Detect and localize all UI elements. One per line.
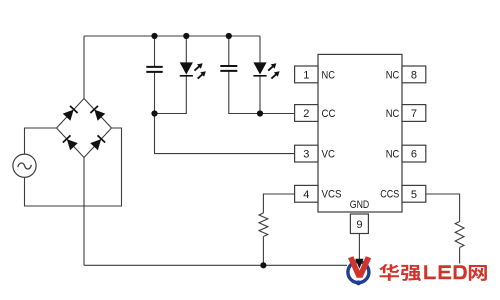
junction: branch2 bottom: [257, 110, 263, 116]
wire: bridge bottom vertex down: [83, 158, 85, 266]
wire: top rail: [84, 35, 260, 37]
svg-text:5: 5: [411, 189, 417, 201]
AC source V1: [13, 154, 36, 177]
logo text: 强: [401, 265, 421, 281]
wire: pin 4 (VCS) to R1: [263, 194, 294, 213]
wire: bridge top vertex up to top rail: [83, 36, 85, 99]
capacitor C2: [220, 66, 237, 71]
svg-text:VC: VC: [322, 149, 336, 161]
logo text: 华: [379, 264, 399, 281]
pin 1 box: [295, 66, 318, 83]
svg-text:NC: NC: [386, 108, 400, 120]
pin 6 box: [402, 145, 426, 162]
svg-text:9: 9: [356, 219, 362, 231]
diode D3 (bridge bottom-left): [63, 135, 78, 150]
svg-text:NC: NC: [322, 69, 336, 81]
wire: LED1 column: [185, 36, 187, 62]
wire: C2 column: [228, 36, 230, 65]
wire: R2 down lead: [459, 248, 461, 264]
svg-text:4: 4: [303, 189, 309, 201]
resistor R2: [455, 222, 464, 248]
svg-text:6: 6: [411, 149, 417, 161]
diode D1 (bridge top-left): [63, 106, 78, 121]
wire: branch2 junction to pin 2 (CC): [260, 113, 295, 115]
wire: pin 9 (GND) down with arrowhead: [355, 234, 363, 269]
wire: bottom ground rail: [84, 264, 347, 266]
wire: LED2 column: [259, 36, 261, 62]
wire: AC bottom to bridge right vertex: [25, 128, 122, 206]
LED1: [180, 61, 208, 81]
svg-text:NC: NC: [386, 149, 400, 161]
wire: pin 5 (CCS) to R2: [426, 194, 460, 222]
wire: R1 to ground rail: [262, 237, 264, 266]
svg-text:CC: CC: [322, 108, 336, 120]
svg-text:VCS: VCS: [322, 189, 342, 201]
svg-text:2: 2: [303, 108, 309, 120]
junction: branch1 bottom: [151, 110, 157, 116]
pin 5 box: [402, 185, 426, 202]
wire: branch1 junction to pin 3 (VC): [155, 114, 295, 154]
pin 3 box: [295, 145, 318, 162]
svg-text:NC: NC: [386, 69, 400, 81]
pin 8 box: [402, 66, 426, 83]
svg-text:3: 3: [303, 149, 309, 161]
logo text: D: [454, 265, 467, 279]
pin 9 box: [350, 214, 368, 234]
logo mark: red V: [348, 256, 371, 277]
svg-text:8: 8: [411, 69, 417, 81]
junction: R1 at ground rail: [260, 262, 266, 268]
bridge rectifier diamond: [57, 99, 112, 158]
diode D4 (bridge bottom-right): [90, 135, 105, 150]
pin 4 box: [295, 185, 318, 202]
pin 2 box: [295, 105, 318, 122]
svg-text:1: 1: [303, 69, 309, 81]
logo mark: blue ring: [348, 262, 369, 286]
pin 7 box: [402, 105, 426, 122]
diode D2 (bridge top-right): [90, 106, 105, 121]
junction: C2 top: [226, 33, 232, 39]
capacitor C1: [146, 67, 162, 72]
wire: C1 column: [154, 36, 156, 66]
op-amp / driver IC U1 body: [318, 54, 402, 212]
svg-text:7: 7: [411, 108, 417, 120]
wire: AC top to bridge left vertex: [25, 128, 57, 154]
resistor R1: [259, 213, 268, 237]
junction: C1 top: [151, 33, 157, 39]
svg-text:GND: GND: [350, 199, 370, 211]
junction: LED1 top: [183, 33, 189, 39]
logo text: L: [424, 265, 436, 279]
svg-text:CCS: CCS: [380, 189, 399, 201]
LED2: [253, 61, 281, 81]
logo text: E: [439, 265, 452, 279]
logo text: 网: [469, 265, 487, 281]
